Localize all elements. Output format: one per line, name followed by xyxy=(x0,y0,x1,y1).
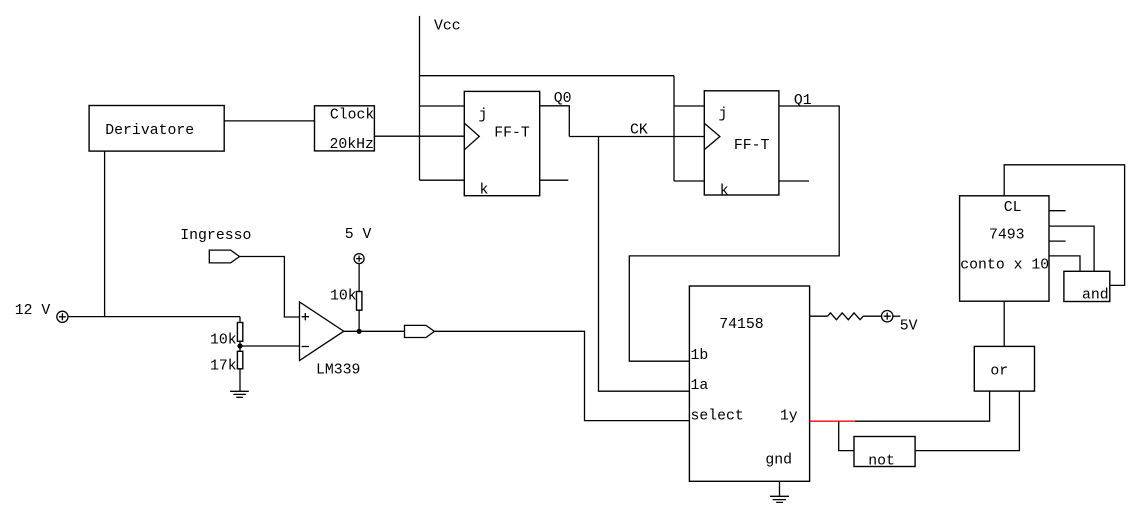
svg-text:CL: CL xyxy=(1004,200,1022,216)
svg-text:LM339: LM339 xyxy=(316,363,360,379)
wire FF1 k input xyxy=(420,179,465,181)
svg-text:or: or xyxy=(990,363,1008,379)
wire FF2 k output stub xyxy=(779,180,809,182)
gate OR box xyxy=(974,346,1034,391)
svg-text:12 V: 12 V xyxy=(15,303,51,319)
wire Q1 output to 74158 1b xyxy=(629,106,839,361)
svg-text:select: select xyxy=(691,408,744,424)
resistor R2 10k divider body xyxy=(237,323,242,342)
svg-text:Q1: Q1 xyxy=(794,93,812,109)
wire 7493 output pin 1 stub xyxy=(1049,210,1066,212)
svg-text:10k: 10k xyxy=(210,333,237,349)
supply 5V circle symbol xyxy=(354,254,364,264)
supply 5V circle symbol right xyxy=(882,311,893,322)
wire comparator output xyxy=(344,330,405,332)
input flag Ingresso xyxy=(209,250,239,263)
svg-text:not: not xyxy=(868,454,895,470)
svg-text:Ingresso: Ingresso xyxy=(180,228,251,244)
wire Derivatore to Clock xyxy=(224,120,314,122)
svg-text:20kHz: 20kHz xyxy=(330,137,374,153)
wire 7493 output pin 3 stub xyxy=(1049,240,1066,242)
wire 1y to not gate input xyxy=(839,421,854,450)
svg-text:FF-T: FF-T xyxy=(494,126,530,142)
svg-text:conto x 10: conto x 10 xyxy=(960,258,1049,274)
wire 1y red segment xyxy=(810,420,855,422)
wire 1y to or gate input xyxy=(855,391,990,421)
wire FF1 j input xyxy=(420,105,465,107)
svg-text:and: and xyxy=(1082,288,1109,304)
wire not output to or gate input xyxy=(915,391,1019,451)
wire CK to 74158 1a xyxy=(599,137,690,392)
svg-text:gnd: gnd xyxy=(765,453,792,469)
wire resistor to 5V symbol xyxy=(863,315,881,317)
wire 7493 output pin 2 to and xyxy=(1049,226,1094,271)
svg-text:17k: 17k xyxy=(210,358,237,374)
svg-text:1a: 1a xyxy=(691,378,709,394)
svg-text:Clock: Clock xyxy=(330,108,375,124)
wire 5V to resistor R1 xyxy=(358,264,360,292)
wire divider middle xyxy=(239,341,241,351)
op-amp U3 LM339 triangle xyxy=(300,302,344,361)
wire 7493 CL loop from and gate xyxy=(1004,165,1124,286)
U3 plus input mark xyxy=(302,313,309,320)
wire FF1 k output stub xyxy=(540,179,569,181)
U1 clock triangle xyxy=(464,123,479,150)
resistor R4 zigzag to 5V xyxy=(828,313,864,320)
svg-text:74158: 74158 xyxy=(719,317,763,333)
ground divider xyxy=(230,391,249,397)
box Clock 20kHz xyxy=(315,106,375,151)
svg-text:j: j xyxy=(719,107,728,123)
resistor R1 10k pull-up body xyxy=(357,292,362,311)
flip-flop U2 FF-T box xyxy=(704,91,779,195)
svg-text:Derivatore: Derivatore xyxy=(105,123,194,139)
svg-text:Vcc: Vcc xyxy=(434,19,461,35)
svg-text:FF-T: FF-T xyxy=(734,138,770,154)
svg-text:7493: 7493 xyxy=(989,228,1025,244)
ground 74158 xyxy=(770,496,789,502)
wire FF2 supply feed vertical xyxy=(673,76,675,181)
wire R3 to ground xyxy=(239,369,241,392)
svg-text:1b: 1b xyxy=(691,348,709,364)
output flag after comparator xyxy=(405,325,435,337)
wire 12V rail to Derivatore xyxy=(104,151,106,317)
junction output node dot xyxy=(357,329,362,334)
U3 minus input mark xyxy=(302,346,309,348)
wire 12V rail xyxy=(68,316,240,318)
wire 5V stub xyxy=(893,315,900,317)
wire or output to 7493 xyxy=(1003,301,1005,346)
wire FF2 k input xyxy=(674,180,704,182)
IC 7493 box xyxy=(960,196,1049,301)
wire FF2 j input xyxy=(674,105,704,107)
resistor R3 17k body xyxy=(237,351,242,369)
wire divider node to minus input xyxy=(240,345,300,347)
wire Clock to FF1 CK xyxy=(374,135,464,137)
svg-text:10k: 10k xyxy=(330,289,357,305)
svg-text:Q0: Q0 xyxy=(554,91,572,107)
svg-text:k: k xyxy=(720,183,729,199)
svg-text:j: j xyxy=(479,108,488,124)
wire CK net xyxy=(569,136,704,138)
wire Q0 output xyxy=(540,106,570,137)
wire 74158 Vcc pin xyxy=(810,315,828,317)
wire 7493 output pin 4 to and xyxy=(1049,256,1080,271)
wire Vcc top branch xyxy=(420,75,675,77)
svg-text:k: k xyxy=(480,182,489,198)
wire Vcc rail vertical xyxy=(419,16,421,180)
svg-text:5V: 5V xyxy=(900,318,918,334)
wire Ingresso to plus input xyxy=(240,257,300,318)
supply 12V circle symbol xyxy=(57,311,68,322)
junction divider node dot xyxy=(237,343,242,348)
gate NOT box xyxy=(854,437,915,467)
svg-text:CK: CK xyxy=(630,122,648,138)
IC 74158 box xyxy=(689,286,809,481)
box Derivatore xyxy=(89,106,224,152)
gate AND box xyxy=(1064,271,1110,301)
wire divider top xyxy=(239,317,241,323)
wire 74158 gnd stem xyxy=(779,481,781,496)
wire R1 to output node xyxy=(358,310,360,331)
wire comparator output to 74158 select xyxy=(434,331,689,420)
svg-text:5 V: 5 V xyxy=(345,227,372,243)
flip-flop U1 FF-T box xyxy=(464,91,539,195)
svg-text:1y: 1y xyxy=(780,408,798,424)
U2 clock triangle xyxy=(704,123,720,149)
